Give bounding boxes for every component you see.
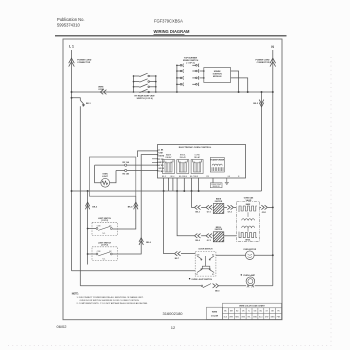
svg-text:WIRE COLOR CODE CHART: WIRE COLOR CODE CHART (239, 305, 265, 308)
wire spark module second output (231, 78, 248, 92)
wire RD13A to EOC (95, 164, 158, 166)
wire BK1 vertical (79, 106, 81, 285)
svg-text:GD: GD (228, 176, 231, 178)
wire top bus L1 to N (72, 91, 273, 93)
node junction BK2 (261, 91, 263, 93)
ground chassis (225, 178, 229, 185)
broil valve coil (242, 226, 255, 228)
switch hi-limit S2 (92, 218, 117, 236)
connector plug on N (270, 58, 276, 66)
svg-text:COM: COM (196, 254, 200, 256)
connector plug on L1 (69, 58, 75, 66)
svg-text:( 1 OF 4 ): ( 1 OF 4 ) (186, 61, 195, 64)
oven temp sensor RT1 (212, 178, 214, 183)
connector BK6 on stub B (139, 238, 143, 245)
connector BK7 (175, 251, 181, 255)
electronic oven control U2 (158, 145, 246, 179)
broil valve heater element (239, 232, 257, 238)
scan artifact dotted column (330, 57, 332, 345)
spark module U1 (204, 68, 231, 83)
svg-text:RED: RED (235, 316, 239, 318)
wire EOC stub A (138, 151, 158, 157)
svg-text:BK-3: BK-3 (162, 176, 166, 178)
node junction BK1 branch (71, 97, 73, 99)
svg-text:Publication No.: Publication No. (57, 17, 85, 22)
wire oven lamp run (80, 285, 201, 287)
svg-text:TX BK: TX BK (158, 171, 164, 173)
svg-text:316002180: 316002180 (163, 311, 184, 316)
switch RT REAR surface unit switch (134, 73, 156, 93)
svg-text:TRANSFORMER: TRANSFORMER (210, 159, 225, 162)
node junction N top bus (272, 91, 274, 93)
svg-text:WIRING DIAGRAM: WIRING DIAGRAM (154, 29, 191, 34)
wire RD13B to EOC (116, 170, 158, 172)
connector BK9 (213, 284, 219, 288)
svg-text:BK-5: BK-5 (92, 206, 98, 208)
EOC output drop wires (164, 178, 199, 191)
svg-text:NOTE:: NOTE: (72, 294, 79, 296)
wire lamp to N (255, 285, 273, 287)
svg-text:BK-6: BK-6 (146, 242, 152, 244)
svg-text:BK-8: BK-8 (128, 206, 134, 208)
wire light switch to lamp (219, 285, 246, 287)
transformer T1 (210, 158, 225, 173)
svg-text:FGF379CXBSA: FGF379CXBSA (154, 19, 183, 24)
svg-text:BK: BK (224, 310, 227, 312)
wire valve to N (260, 206, 262, 208)
node junctions on mid bus (71, 190, 200, 192)
relay K3 conv (191, 154, 203, 173)
svg-text:1. DISCONNECT POWER BEFORE AL: 1. DISCONNECT POWER BEFORE ALL SERVICING… (77, 296, 144, 299)
svg-text:BROIL: BROIL (246, 239, 251, 241)
wire broil igniter to valve (224, 235, 237, 237)
connector GY2 (227, 205, 233, 209)
svg-text:LP RD: LP RD (158, 165, 164, 167)
svg-text:BK-1: BK-1 (86, 103, 92, 105)
wire N vertical (272, 50, 274, 286)
oven lamp L3 (241, 274, 242, 275)
svg-text:N.C.: N.C. (103, 233, 107, 235)
svg-text:YL: YL (248, 310, 250, 312)
svg-text:RELAY: RELAY (180, 156, 187, 159)
svg-text:BK-7 BK-8: BK-7 BK-8 (190, 176, 198, 178)
svg-text:BK-9: BK-9 (215, 291, 219, 293)
EOC left edge terminal dots (157, 150, 159, 171)
wire bake igniter row (192, 191, 214, 207)
svg-text:(2 OF 2): (2 OF 2) (101, 245, 108, 247)
switch lo-limit S3 (92, 242, 117, 260)
EOC left terminal strip labels (158, 150, 165, 174)
wire L1 bottom run to door switch (72, 270, 196, 272)
svg-text:COM: COM (97, 226, 101, 228)
svg-text:N: N (271, 45, 274, 49)
svg-text:BLU: BLU (259, 316, 263, 318)
svg-text:IGNITOR: IGNITOR (215, 201, 223, 203)
terminal RD13A (125, 164, 127, 166)
svg-text:RD 13B: RD 13B (122, 173, 129, 175)
svg-text:06/02: 06/02 (57, 324, 68, 329)
svg-text:ORN: ORN (241, 316, 246, 318)
wire BK2 drop (261, 92, 263, 191)
svg-text:WIRE: WIRE (212, 311, 218, 313)
svg-text:L 1: L 1 (69, 45, 74, 49)
scan artifact dotted bottom row (8, 345, 332, 347)
switch BK1 blade (80, 100, 84, 105)
diagram border frame (63, 39, 282, 320)
EOC bottom terminal labels (162, 176, 240, 178)
svg-text:N: N (238, 176, 240, 178)
svg-text:COLOR: COLOR (211, 316, 219, 318)
svg-text:L1 BK: L1 BK (158, 150, 164, 152)
svg-text:BK-4: BK-4 (171, 176, 175, 178)
svg-text:OVEN DOOR SWITCH SHOWN IN DOOR: OVEN DOOR SWITCH SHOWN IN DOOR CLOSED PO… (80, 300, 140, 302)
svg-text:RD 13A: RD 13A (122, 161, 129, 164)
svg-text:BK-5 BK-6: BK-5 BK-6 (179, 176, 187, 178)
bake valve coil (242, 219, 255, 221)
connector BK4 (195, 234, 201, 238)
svg-text:5995374310: 5995374310 (57, 23, 80, 28)
svg-text:MODULE: MODULE (213, 76, 222, 78)
svg-text:IGNITOR: IGNITOR (215, 229, 223, 231)
svg-text:DSI RD: DSI RD (158, 156, 165, 158)
svg-text:GY-3: GY-3 (207, 240, 211, 242)
svg-text:GY-1: GY-1 (207, 212, 211, 214)
svg-text:12V: 12V (206, 176, 210, 178)
svg-text:2. COMPONENTS MTD. ① DO NOT A: 2. COMPONENTS MTD. ① DO NOT APPEAR IN AL… (77, 302, 149, 305)
svg-text:N.C.: N.C. (103, 258, 107, 260)
svg-text:COM: COM (97, 251, 101, 253)
header rule (55, 35, 287, 37)
wire BK5 limit feed (87, 191, 89, 265)
wire EOC stub B to lo-limit (112, 155, 157, 254)
connector BK3 (195, 205, 201, 209)
svg-text:PNK: PNK (277, 316, 281, 318)
wire spark module to N bus (231, 71, 239, 92)
svg-text:WHT: WHT (229, 316, 233, 318)
svg-text:LIGHT: LIGHT (102, 176, 109, 178)
bake valve heater element (239, 206, 257, 212)
svg-text:RELAY: RELAY (194, 156, 201, 159)
svg-text:CONNECTOR: CONNECTOR (77, 62, 90, 64)
oven lamp assembly box (90, 157, 136, 196)
svg-text:SPARK: SPARK (214, 70, 221, 73)
svg-text:BU: BU (260, 310, 263, 312)
svg-text:GN: GN (254, 310, 257, 312)
svg-text:GRY: GRY (265, 316, 270, 318)
svg-text:ELECTRONIC OVEN CONTROL: ELECTRONIC OVEN CONTROL (179, 147, 212, 149)
relay K1 bake (163, 153, 175, 173)
svg-text:(1 OF 2): (1 OF 2) (101, 220, 108, 222)
svg-text:NO: NO (212, 254, 215, 256)
svg-text:BK-4: BK-4 (196, 239, 200, 242)
svg-text:RELAY: RELAY (165, 156, 172, 159)
wire stub into lo-limit (88, 253, 97, 255)
connector OR1 (261, 205, 267, 209)
svg-text:SENSOR: SENSOR (213, 186, 221, 188)
svg-text:DOOR SWITCH: DOOR SWITCH (199, 249, 213, 251)
svg-text:YEL: YEL (247, 316, 250, 318)
svg-text:NO: NO (212, 274, 215, 276)
connector BK8 (134, 202, 138, 209)
svg-text:GY-2: GY-2 (228, 212, 232, 214)
wire door switch feed (164, 191, 196, 254)
connector GY1 (206, 205, 212, 209)
svg-text:12: 12 (171, 325, 176, 330)
svg-text:N WH: N WH (158, 153, 163, 155)
switch top burner spark switch contacts (177, 64, 204, 92)
header publication number (57, 17, 85, 28)
svg-text:BR: BR (271, 310, 274, 312)
svg-text:SWITCH (1 OF 4): SWITCH (1 OF 4) (137, 97, 153, 100)
svg-text:BK-3: BK-3 (196, 212, 200, 214)
wire stub into hi-limit (88, 228, 97, 230)
svg-text:GRN: GRN (253, 316, 258, 318)
wire L1 vertical (71, 50, 73, 271)
svg-text:BK-2: BK-2 (253, 103, 259, 105)
wire mid bus (72, 190, 262, 192)
svg-text:PK: PK (277, 310, 280, 312)
switch oven light (189, 278, 190, 279)
svg-text:GY: GY (265, 310, 268, 312)
wire igniter to valve (224, 206, 227, 208)
connector BK2 (259, 100, 264, 107)
connector BK5 (85, 202, 89, 209)
svg-text:OR: OR (242, 310, 245, 312)
wire color code table (207, 303, 282, 319)
svg-text:CONNECTOR: CONNECTOR (257, 62, 270, 64)
svg-text:BRN: BRN (271, 316, 275, 318)
wire broil igniter row (177, 191, 213, 236)
svg-text:LT OR: LT OR (158, 159, 164, 161)
svg-text:OR-1: OR-1 (262, 212, 266, 214)
svg-text:CONN: CONN (98, 89, 104, 91)
EOC left stub wires (152, 158, 158, 160)
connector inline on top bus (100, 90, 106, 95)
connector GY3 (206, 234, 212, 238)
svg-text:BK-7: BK-7 (175, 258, 179, 260)
node junction L1 top bus (71, 91, 73, 93)
svg-text:WH: WH (230, 310, 234, 312)
relay K2 broil (177, 154, 189, 173)
svg-text:RD: RD (236, 310, 239, 312)
lamp L2 oven cavity (95, 165, 116, 187)
svg-text:GD GN: GD GN (158, 168, 164, 170)
svg-text:OVEN LIGHT SWITCH: OVEN LIGHT SWITCH (191, 279, 212, 281)
wire lamp box right edge to hi-limit (112, 196, 135, 229)
terminal RD13B (125, 169, 127, 171)
svg-text:BLK: BLK (224, 316, 228, 318)
wire BK1 branch (72, 98, 81, 101)
